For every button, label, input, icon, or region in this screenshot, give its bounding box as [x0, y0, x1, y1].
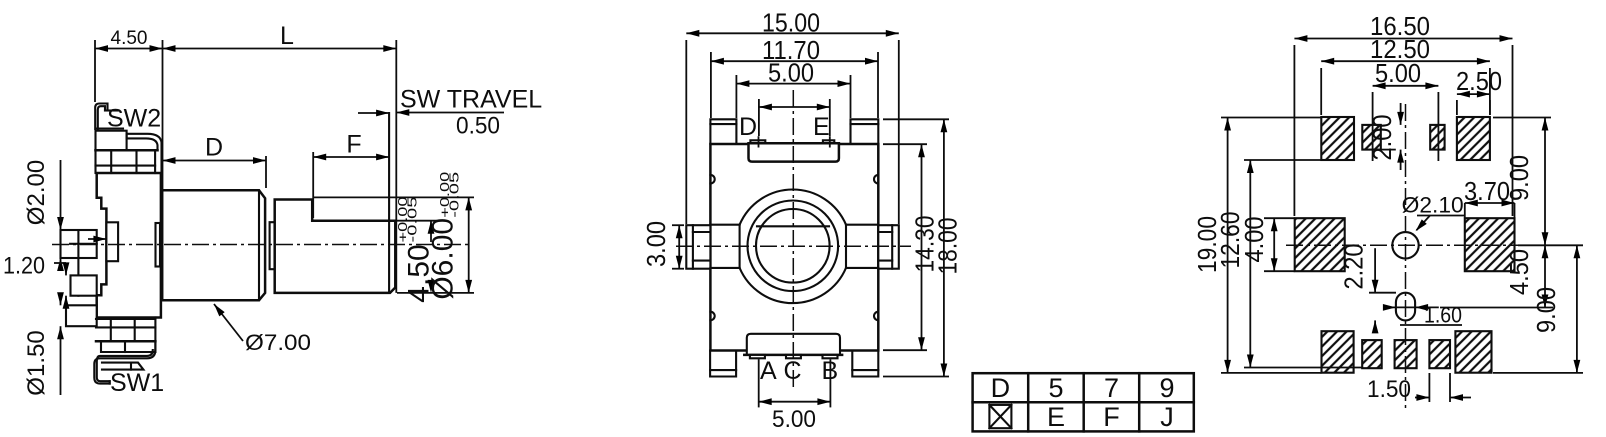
- svg-text:4.00: 4.00: [1239, 217, 1269, 263]
- svg-text:A: A: [760, 357, 777, 385]
- svg-text:7: 7: [1104, 373, 1119, 403]
- svg-text:1.60: 1.60: [1424, 303, 1462, 328]
- dim 3.00: [672, 224, 684, 226]
- pin C: [66, 305, 97, 326]
- svg-text:2.00: 2.00: [1367, 115, 1397, 161]
- SW TRAVEL dim: [358, 112, 389, 114]
- dim 12.50: [1320, 68, 1322, 115]
- bottom strip: [747, 334, 840, 355]
- svg-text:Ø2.10: Ø2.10: [1402, 193, 1464, 218]
- dim 3.70: [1465, 202, 1515, 204]
- corner tabs: [710, 119, 736, 144]
- centerlines: [1405, 104, 1407, 412]
- svg-text:Ø7.00: Ø7.00: [245, 330, 311, 355]
- dim 19.00: [1221, 117, 1321, 119]
- svg-text:9.00: 9.00: [1504, 155, 1534, 201]
- svg-text:C: C: [784, 357, 802, 385]
- svg-text:5.00: 5.00: [768, 57, 814, 87]
- dim 2.00: [1400, 103, 1402, 125]
- dim F: [312, 152, 314, 218]
- pads top row: [1321, 117, 1354, 160]
- center hole: [1392, 232, 1418, 258]
- brick rows top: [96, 149, 158, 152]
- dim 5.00 top: [735, 75, 737, 118]
- body bump: [106, 222, 118, 261]
- svg-text:E: E: [1047, 402, 1065, 432]
- rings: [748, 201, 839, 292]
- band lines: [710, 224, 739, 226]
- svg-text:F: F: [346, 131, 361, 159]
- right inner boss: [156, 223, 161, 267]
- svg-text:5.00: 5.00: [1375, 58, 1421, 88]
- leader O7.00: [214, 304, 243, 341]
- svg-text:E: E: [813, 113, 830, 141]
- pin A: [61, 230, 97, 258]
- row 2 checkbox: [989, 405, 1011, 428]
- big circle arcs: [740, 189, 846, 224]
- svg-text:Ø2.00: Ø2.00: [23, 160, 50, 225]
- dim unlabeled: [758, 99, 760, 136]
- bottom brick rows: [96, 318, 155, 320]
- svg-text:Ø1.50: Ø1.50: [23, 330, 50, 395]
- switch hole oval: [1396, 293, 1415, 321]
- dim O6.00 shaft: [468, 197, 470, 293]
- dim 4.50 right: [1440, 307, 1553, 309]
- dim 2.50: [1456, 100, 1458, 115]
- svg-text:SW1: SW1: [110, 369, 164, 397]
- svg-text:D: D: [991, 373, 1011, 403]
- bushing: [162, 190, 265, 300]
- svg-text:-0.05: -0.05: [405, 197, 420, 243]
- dim 9.00 lower: [1553, 244, 1583, 246]
- bracket SW2: [95, 104, 107, 130]
- svg-text:3.00: 3.00: [641, 221, 671, 267]
- flag: [102, 363, 143, 370]
- svg-text:2.50: 2.50: [1456, 66, 1502, 96]
- dim 18.00: [883, 118, 949, 120]
- svg-text:15.00: 15.00: [762, 8, 820, 38]
- svg-text:5: 5: [1048, 373, 1063, 403]
- svg-text:18.00: 18.00: [933, 218, 963, 275]
- body outline: [97, 173, 161, 318]
- SW travel line: [388, 113, 390, 293]
- centerlines: [676, 245, 911, 247]
- svg-text:F: F: [1103, 402, 1120, 432]
- top terminal block: [96, 127, 123, 129]
- dim D: [265, 156, 267, 188]
- dim 5.00 bottom: [758, 359, 760, 407]
- svg-text:0.50: 0.50: [456, 113, 500, 140]
- bottom block: [101, 341, 155, 352]
- dim 1.50: [1428, 373, 1430, 402]
- dim 12.60: [1244, 159, 1321, 161]
- svg-text:SW TRAVEL: SW TRAVEL: [400, 86, 542, 114]
- svg-text:D: D: [739, 113, 757, 141]
- dim 4.00: [1264, 217, 1295, 219]
- dim 4.50 ext lines: [94, 40, 96, 102]
- svg-text:5.00: 5.00: [772, 406, 816, 433]
- svg-text:-0.05: -0.05: [447, 172, 462, 218]
- dim pins: [60, 223, 62, 230]
- svg-text:J: J: [1160, 402, 1174, 432]
- dim 16.50: [1293, 45, 1295, 216]
- svg-text:4.50: 4.50: [111, 28, 148, 49]
- svg-text:9.00: 9.00: [1531, 287, 1561, 333]
- ext lines right of shaft: [314, 196, 474, 198]
- svg-text:L: L: [280, 22, 294, 50]
- pads middle: [1295, 218, 1345, 271]
- chord: [757, 225, 829, 227]
- dim 15.00: [685, 40, 687, 224]
- pads bottom row: [1322, 331, 1354, 373]
- shaft: [275, 200, 396, 293]
- dim 11.70: [710, 52, 712, 118]
- svg-text:1.50: 1.50: [1367, 376, 1411, 403]
- svg-text:D: D: [205, 134, 223, 162]
- svg-text:4.50: 4.50: [1504, 249, 1534, 295]
- dim 9.00 upper: [1493, 117, 1551, 119]
- dim 14.30: [883, 143, 927, 145]
- pin B: [71, 275, 97, 295]
- dim 2.20: [1369, 292, 1396, 294]
- dim line 4.50: [95, 48, 163, 50]
- dim line L: [163, 48, 397, 50]
- side arm left: [686, 225, 710, 269]
- svg-text:1.20: 1.20: [3, 253, 45, 280]
- dim 1.60: [1386, 306, 1439, 308]
- dim 5.00: [1372, 92, 1374, 124]
- bracket SW1: [94, 350, 155, 384]
- bumps: [710, 175, 714, 184]
- svg-text:Ø6.00: Ø6.00: [427, 218, 460, 300]
- neck: [270, 222, 275, 269]
- body: [710, 144, 878, 351]
- svg-text:9: 9: [1159, 373, 1174, 403]
- top strip: [750, 140, 765, 143]
- centerline: [52, 244, 472, 246]
- dim 4.50 shaft: [430, 221, 432, 242]
- side arm right: [878, 225, 899, 269]
- svg-text:2.20: 2.20: [1339, 244, 1369, 290]
- table grid: [973, 373, 1194, 431]
